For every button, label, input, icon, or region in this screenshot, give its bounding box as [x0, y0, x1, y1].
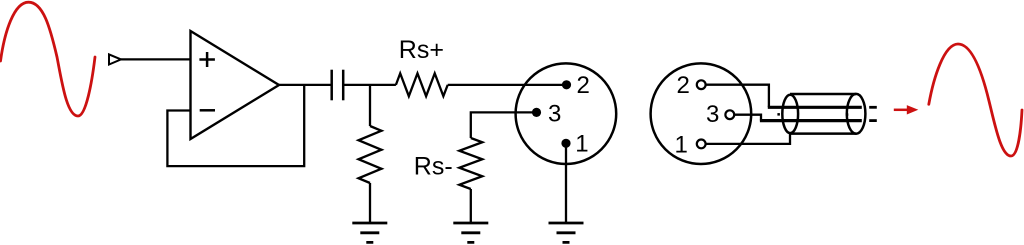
TRS plug body (cylinder) — [790, 93, 856, 96]
svg-text:2: 2 — [677, 72, 690, 99]
pin 3 open circle (male) — [725, 110, 734, 119]
dash (ring continuation) — [869, 119, 877, 122]
op-amp plus sign — [199, 52, 215, 67]
conductor line (ring) — [760, 119, 862, 122]
dash (tip continuation) — [869, 106, 877, 109]
XLR female connector circle — [516, 63, 617, 164]
wire: feedback loop (minus input to output) — [167, 85, 304, 166]
pin 1 open circle (male) — [697, 140, 706, 149]
op-amp U1 triangle — [191, 31, 280, 139]
conductor line (tip) — [768, 106, 862, 109]
wire: male pin 3 to plug ring conductor — [734, 115, 761, 121]
input arrow (open triangle) — [109, 54, 121, 64]
ground (below R1) — [352, 223, 387, 242]
wire: male pin 2 to plug tip conductor — [706, 85, 769, 108]
svg-text:3: 3 — [706, 101, 719, 128]
svg-text:Rs+: Rs+ — [399, 36, 444, 64]
wire: pin 1 to ground — [565, 143, 567, 223]
wire: pin 3 to Rs- — [471, 112, 537, 138]
wire: arrow to op-amp + input — [121, 58, 191, 60]
ground (below Rs-) — [453, 223, 488, 242]
pin 3 dot (female) — [532, 108, 541, 117]
svg-text:1: 1 — [575, 131, 588, 158]
svg-text:3: 3 — [548, 101, 561, 128]
wire: op-amp output to capacitor — [279, 84, 332, 86]
resistor R1 (shunt, vertical) — [359, 126, 382, 183]
capacitor C1 plates — [330, 70, 333, 101]
output sine wave (red) — [929, 44, 1022, 156]
resistor Rs- (vertical) — [459, 138, 482, 189]
wire: Rs+ to XLR pin 2 — [448, 84, 567, 86]
wire: male pin 1 to plug sleeve — [706, 134, 790, 144]
wire: junction down to shunt resistor — [369, 85, 371, 126]
resistor Rs+ (series, horizontal) — [396, 73, 448, 96]
plug left ellipse — [782, 95, 798, 133]
axis mark right — [846, 113, 849, 116]
ground (below pin 1) — [549, 223, 584, 242]
pin 1 dot (female) — [561, 139, 570, 148]
wire: R1 to ground — [369, 183, 371, 223]
pin 2 dot (female) — [562, 80, 571, 89]
wire: capacitor to Rs+ (through junction) — [343, 84, 396, 86]
svg-text:2: 2 — [577, 72, 590, 99]
svg-text:1: 1 — [675, 132, 688, 159]
axis mark left — [777, 113, 780, 116]
op-amp minus sign — [200, 109, 215, 112]
pin 2 open circle (male) — [697, 80, 706, 89]
svg-text:Rs-: Rs- — [414, 153, 453, 181]
plug right ellipse — [847, 94, 866, 134]
wire: Rs- to ground — [470, 189, 472, 223]
input sine wave (red) — [1, 2, 96, 116]
XLR male connector circle — [651, 63, 752, 164]
output arrow (red) — [894, 109, 908, 112]
